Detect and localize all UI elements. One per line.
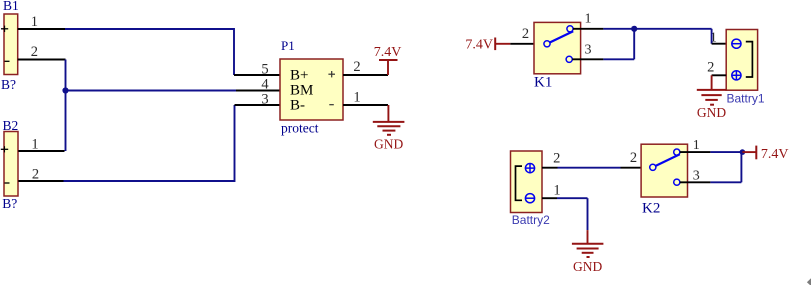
svg-text:B?: B? [1, 77, 16, 92]
svg-text:7.4V: 7.4V [465, 38, 493, 53]
svg-text:B?: B? [2, 196, 17, 211]
svg-text:B2: B2 [3, 118, 19, 133]
svg-text:3: 3 [261, 91, 268, 107]
svg-text:2: 2 [630, 150, 637, 166]
svg-text:1: 1 [31, 136, 38, 152]
svg-text:1: 1 [693, 138, 700, 153]
svg-text:K1: K1 [534, 75, 552, 91]
svg-text:4: 4 [261, 76, 269, 92]
svg-text:GND: GND [374, 136, 403, 151]
svg-text:GND: GND [573, 259, 602, 274]
svg-text:2: 2 [32, 166, 39, 182]
svg-text:B+: B+ [290, 67, 308, 83]
svg-text:2: 2 [31, 44, 38, 60]
svg-text:2: 2 [522, 26, 529, 42]
svg-text:3: 3 [585, 42, 592, 57]
svg-text:K2: K2 [642, 201, 660, 217]
svg-text:2: 2 [353, 59, 360, 75]
svg-text:2: 2 [707, 60, 714, 76]
svg-text:1: 1 [585, 11, 592, 26]
svg-text:B-: B- [290, 97, 305, 113]
svg-text:3: 3 [693, 168, 700, 183]
svg-text:5: 5 [261, 61, 268, 77]
svg-text:protect: protect [281, 121, 319, 136]
svg-text:2: 2 [553, 150, 560, 166]
svg-text:BM: BM [290, 82, 313, 98]
svg-text:7.4V: 7.4V [761, 147, 789, 162]
svg-text:1: 1 [353, 89, 360, 105]
svg-text:GND: GND [697, 105, 726, 120]
svg-text:Battry2: Battry2 [512, 213, 550, 227]
svg-text:1: 1 [31, 14, 38, 30]
svg-text:Battry1: Battry1 [727, 91, 765, 105]
svg-text:1: 1 [553, 182, 560, 198]
svg-text:B1: B1 [3, 0, 19, 13]
svg-text:7.4V: 7.4V [374, 45, 402, 60]
svg-text:P1: P1 [281, 38, 295, 53]
